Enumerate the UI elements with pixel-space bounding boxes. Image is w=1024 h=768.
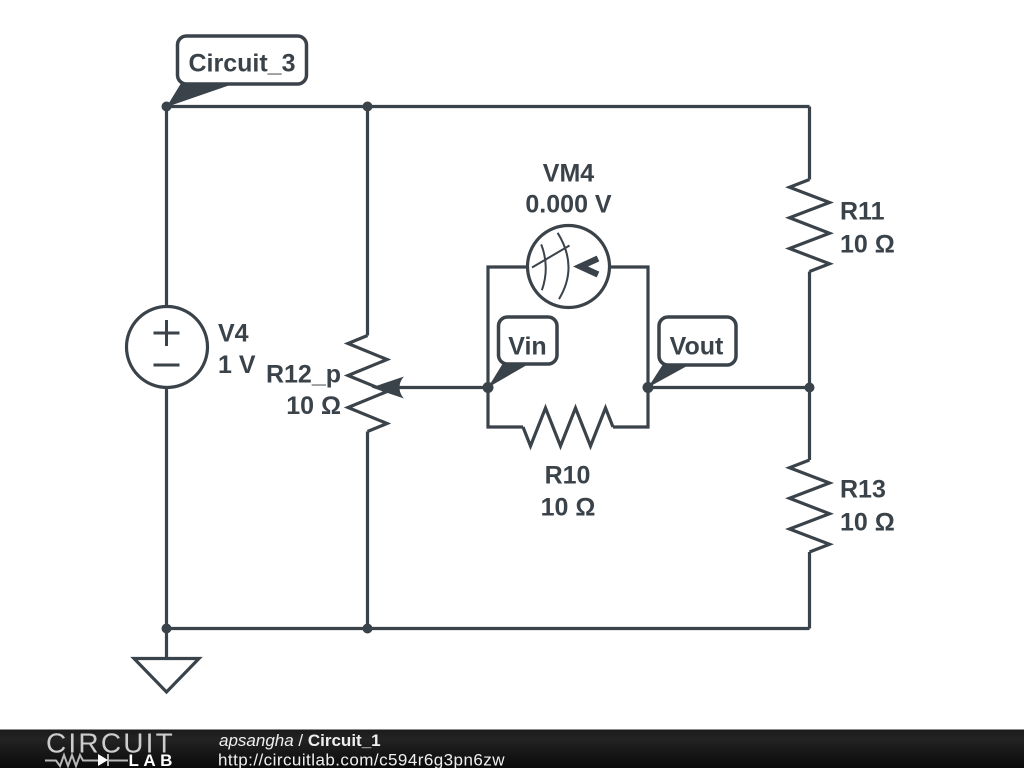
svg-text:10 Ω: 10 Ω	[840, 231, 895, 259]
svg-text:10 Ω: 10 Ω	[840, 509, 895, 537]
svg-text:http://circuitlab.com/c594r6g3: http://circuitlab.com/c594r6g3pn6zw	[218, 751, 505, 768]
svg-text:V4: V4	[218, 320, 249, 348]
svg-text:R10: R10	[545, 462, 591, 490]
svg-text:R12_p: R12_p	[266, 361, 341, 389]
svg-text:R11: R11	[840, 198, 885, 226]
svg-text:R13: R13	[840, 476, 886, 504]
svg-text:Vin: Vin	[508, 333, 546, 361]
svg-text:apsangha / Circuit_1: apsangha / Circuit_1	[219, 731, 381, 750]
svg-text:LAB: LAB	[129, 751, 177, 768]
svg-text:VM4: VM4	[543, 160, 595, 188]
svg-text:10 Ω: 10 Ω	[541, 494, 596, 522]
svg-text:10 Ω: 10 Ω	[286, 392, 341, 420]
svg-text:Vout: Vout	[670, 333, 724, 361]
svg-text:1 V: 1 V	[218, 351, 256, 379]
svg-text:Circuit_3: Circuit_3	[189, 50, 296, 78]
svg-text:0.000 V: 0.000 V	[525, 191, 612, 219]
